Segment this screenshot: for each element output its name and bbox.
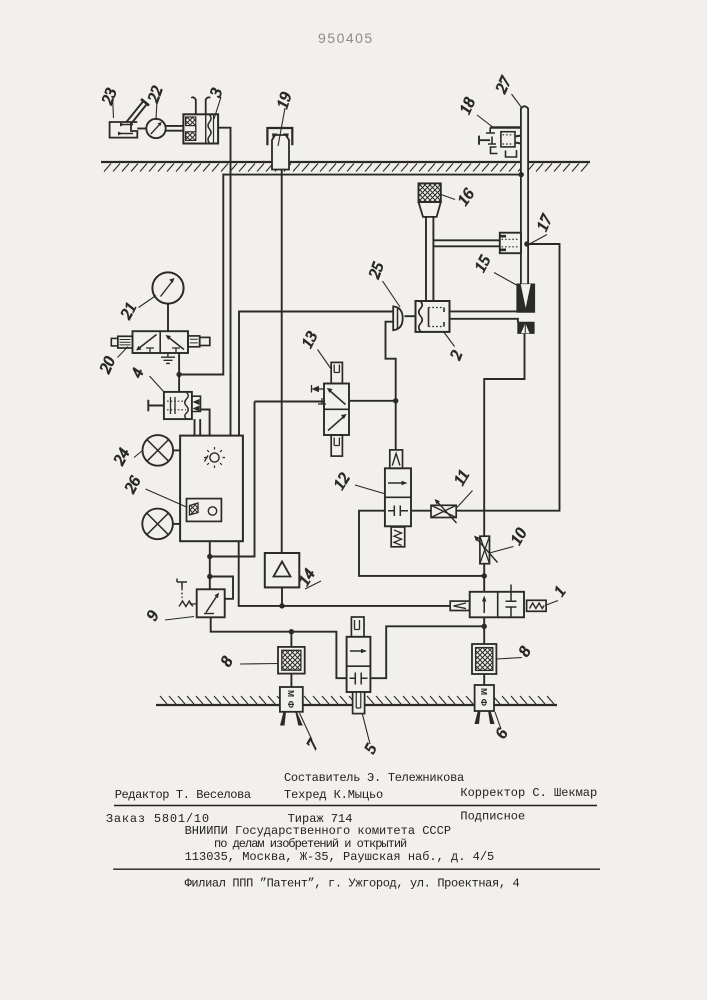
svg-text:22: 22 xyxy=(145,84,166,105)
svg-text:21: 21 xyxy=(118,300,141,322)
svg-text:5: 5 xyxy=(362,741,381,756)
svg-text:8: 8 xyxy=(516,644,535,659)
svg-text:1: 1 xyxy=(551,583,570,599)
svg-text:16: 16 xyxy=(455,186,478,209)
svg-text:Техред К.Мыцьо: Техред К.Мыцьо xyxy=(284,788,383,802)
svg-text:23: 23 xyxy=(99,86,120,107)
svg-text:Редактор Т. Веселова: Редактор Т. Веселова xyxy=(115,788,251,802)
svg-text:25: 25 xyxy=(366,260,387,281)
svg-text:24: 24 xyxy=(111,446,134,468)
svg-text:26: 26 xyxy=(122,474,145,496)
svg-text:11: 11 xyxy=(451,467,473,488)
svg-text:27: 27 xyxy=(493,73,515,95)
svg-text:7: 7 xyxy=(304,736,323,752)
svg-text:17: 17 xyxy=(534,211,556,233)
svg-text:9: 9 xyxy=(144,608,163,623)
svg-text:18: 18 xyxy=(457,95,479,117)
svg-text:Подписное: Подписное xyxy=(460,810,525,824)
svg-text:13: 13 xyxy=(299,329,322,351)
svg-text:950405: 950405 xyxy=(318,30,374,46)
svg-text:Составитель Э. Тележникова: Составитель Э. Тележникова xyxy=(284,771,464,785)
svg-text:6: 6 xyxy=(493,726,512,741)
svg-text:Корректор С. Шекмар: Корректор С. Шекмар xyxy=(460,786,597,800)
svg-text:2: 2 xyxy=(447,348,466,362)
svg-text:15: 15 xyxy=(472,253,495,275)
svg-text:19: 19 xyxy=(274,90,295,110)
svg-text:113035, Москва, Ж-35, Раушская: 113035, Москва, Ж-35, Раушская наб., д. … xyxy=(185,850,495,864)
svg-text:Филиал ППП ”Патент”, г. Ужгоро: Филиал ППП ”Патент”, г. Ужгород, ул. Про… xyxy=(185,877,520,891)
svg-text:12: 12 xyxy=(331,470,354,493)
svg-text:4: 4 xyxy=(128,366,147,380)
svg-text:по делам изобретений и открыти: по делам изобретений и открытий xyxy=(214,837,407,851)
svg-text:20: 20 xyxy=(97,354,119,376)
svg-text:10: 10 xyxy=(508,526,531,548)
svg-text:8: 8 xyxy=(218,654,237,669)
svg-text:ВНИИПИ Государственного комите: ВНИИПИ Государственного комитета СССР xyxy=(185,824,451,838)
